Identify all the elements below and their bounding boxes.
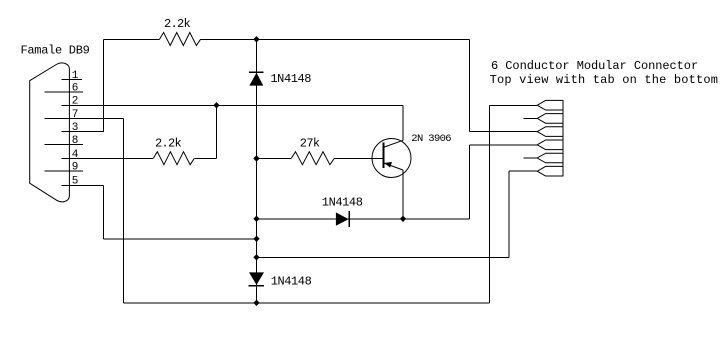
svg-text:4: 4 [72, 149, 79, 161]
diode D3 1N4148 (vertical, bottom) [248, 272, 264, 285]
svg-text:7: 7 [72, 109, 79, 121]
svg-text:Famale DB9: Famale DB9 [21, 43, 90, 57]
wire collector vertical up x=403 [402, 105, 404, 140]
svg-text:1: 1 [72, 70, 79, 82]
wire emitter vertical down x=403 [402, 170, 404, 219]
wire vertical x=216.5 (R2 up to pin2 wire) [216, 105, 218, 158]
svg-text:3: 3 [72, 122, 79, 134]
node junction dot (257,302.8) [253, 300, 259, 306]
node junction dot (257,238.8) [253, 236, 259, 242]
node junction dot (403,219) [400, 216, 406, 222]
resistor R2 2.2k (to DB9 pin 4) [153, 152, 194, 165]
wire top rail (right of R1) [201, 38, 470, 40]
DB9 pin 1 [62, 70, 82, 82]
wire bottom rail y=302.8 [124, 302, 490, 304]
DB9 pin 3 [62, 122, 104, 134]
node junction dot (216.5,105.3) [213, 102, 219, 108]
wire riser x=509 to modular pin 6 [508, 171, 510, 257]
node junction dot (257,158.5) [253, 155, 259, 161]
transistor Q1 2N3906 [372, 139, 411, 178]
DB9 pin 2 [62, 96, 403, 108]
DB9 pin 6 [45, 82, 84, 94]
svg-text:27k: 27k [300, 136, 320, 150]
wire main vertical x=257 [256, 39, 258, 303]
svg-text:2: 2 [72, 96, 79, 108]
stub modular pin2 [523, 117, 537, 119]
svg-text:2.2k: 2.2k [155, 136, 182, 150]
DB9 connector outline [30, 63, 70, 202]
svg-text:2.2k: 2.2k [164, 17, 191, 31]
diode D1 1N4148 (vertical, top) [249, 72, 264, 86]
node junction dot (257,219) [253, 216, 259, 222]
wire modular pin1 horizontal [489, 104, 537, 106]
svg-text:5: 5 [72, 176, 79, 188]
svg-text:Top view with tab on the botto: Top view with tab on the bottom [490, 73, 719, 87]
svg-text:1N4148: 1N4148 [322, 196, 363, 210]
wire left vertical (top rail to DB9 pin 3) [103, 39, 105, 131]
wire modular pin4 horizontal [470, 144, 538, 146]
wire y=238.8 (pin5 to main vertical) [104, 238, 257, 240]
wire top rail right vertical x=469.5 down to modular pin3 [469, 39, 471, 131]
wire riser x=469.5 (y219 up to modular pin4) [469, 145, 471, 219]
wire DB9 pin4 row to corner x=216.5 [194, 158, 216, 160]
wire 27k to transistor base [334, 158, 383, 160]
svg-text:1N4148: 1N4148 [270, 72, 311, 86]
svg-text:6 Conductor Modular Connector: 6 Conductor Modular Connector [491, 59, 698, 73]
diode D2 1N4148 (horizontal) [336, 211, 350, 227]
wire riser x=489.4 to modular pin 1 [488, 105, 490, 302]
DB9 pin 8 [45, 135, 84, 147]
svg-text:9: 9 [72, 161, 79, 173]
DB9 pin 4 [62, 149, 154, 161]
resistor R3 27k [291, 152, 334, 165]
DB9 pin 5 [62, 176, 104, 188]
wire DB9 pin5 vertical x=103.7 [103, 185, 105, 239]
svg-text:1N4148: 1N4148 [271, 275, 312, 289]
wire DB9 pin7 vertical x=123.5 [123, 119, 125, 303]
node junction dot top rail x=257 [253, 36, 259, 42]
node junction dot (257,257.3) [253, 254, 259, 260]
6-conductor modular connector body [537, 100, 563, 176]
wire modular pin3 horizontal [470, 131, 538, 133]
svg-text:2N 3906: 2N 3906 [411, 133, 451, 145]
DB9 pin 7 [45, 109, 124, 121]
wire top rail (left of R1) [104, 38, 160, 40]
resistor R1 2.2k (top) [160, 33, 201, 46]
wire y=219 (emitter rail to modular pin4 riser) [257, 218, 470, 220]
wire modular pin6 horizontal [509, 170, 537, 172]
svg-text:6: 6 [72, 82, 79, 94]
svg-text:8: 8 [72, 135, 79, 147]
stub modular pin5 [523, 157, 537, 159]
DB9 pin 9 [45, 161, 84, 173]
wire base row from x=257 to 27k [257, 158, 292, 160]
wire y=257.3 (to modular pin6 riser) [257, 256, 510, 258]
